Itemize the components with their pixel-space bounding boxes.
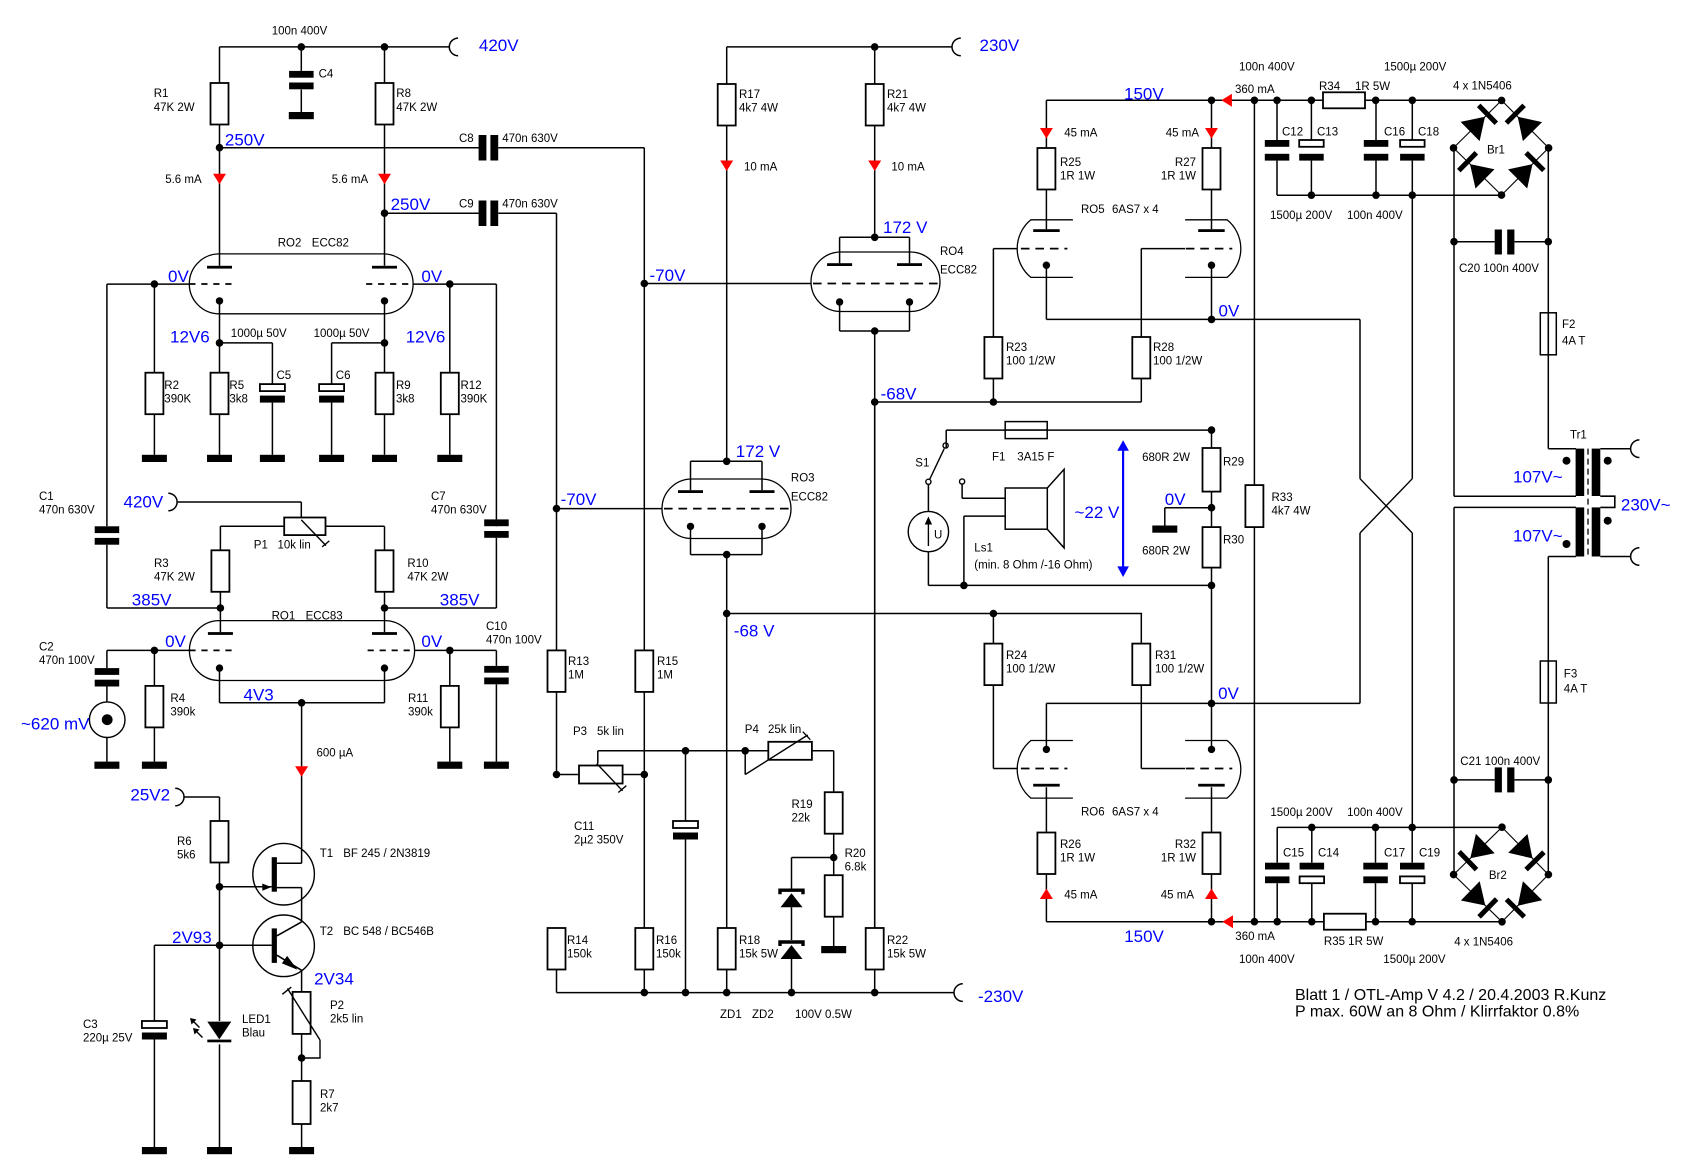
svg-text:0V: 0V [421, 632, 442, 651]
capacitor C21 100n [1454, 779, 1495, 781]
capacitor C11 2u2 [685, 751, 687, 821]
anode plate RO1 right [372, 632, 397, 635]
svg-text:0V: 0V [1219, 302, 1240, 321]
svg-text:25k lin: 25k lin [768, 724, 801, 736]
svg-text:~22 V: ~22 V [1075, 503, 1121, 522]
svg-text:360 mA: 360 mA [1235, 931, 1275, 943]
svg-text:R29: R29 [1223, 457, 1244, 469]
svg-text:C2: C2 [39, 642, 54, 654]
current arrow 600uA [295, 766, 308, 777]
bridge Br2 [1454, 827, 1502, 874]
node -70V RO3 [553, 505, 561, 513]
svg-text:2V93: 2V93 [172, 928, 212, 947]
wire R2 gnd [153, 414, 155, 455]
node F1 output [1208, 426, 1216, 434]
anode plate RO4 right [897, 263, 922, 266]
wire cathodes RO1 join 4V3 [219, 668, 221, 703]
svg-text:RO4: RO4 [940, 246, 964, 258]
svg-text:R6: R6 [177, 836, 192, 848]
cathode RO5 left [1043, 262, 1050, 269]
wire 150V rail top [1045, 100, 1047, 148]
wire grid RO5 left via R23 [993, 248, 1017, 250]
svg-text:470n 100V: 470n 100V [486, 635, 542, 647]
cathode RO6 left [1043, 746, 1050, 753]
node speaker return [960, 582, 968, 590]
ground C5 [260, 455, 285, 462]
svg-text:C20 100n 400V: C20 100n 400V [1459, 263, 1539, 275]
resistor R27 1R 1W [1211, 100, 1213, 148]
wire 0V right to C10 [450, 649, 497, 651]
svg-text:R10: R10 [407, 558, 428, 570]
wire cathodes RO4 join [839, 302, 841, 331]
node C18 rail [1409, 97, 1417, 105]
potentiometer P4 25k lin [768, 742, 812, 760]
svg-text:P3: P3 [573, 726, 587, 738]
resistor R7 [293, 1081, 311, 1124]
ground R2 [142, 455, 167, 462]
node C15 rail [1273, 918, 1281, 926]
svg-text:390K: 390K [461, 394, 488, 406]
svg-text:ZD1: ZD1 [720, 1009, 742, 1021]
svg-text:5.6 mA: 5.6 mA [165, 174, 202, 186]
svg-text:(min. 8 Ohm /-16 Ohm): (min. 8 Ohm /-16 Ohm) [974, 560, 1092, 572]
svg-text:0V: 0V [421, 267, 442, 286]
svg-text:T2: T2 [320, 926, 333, 938]
wire R14 to rail [556, 970, 558, 993]
node 250V left [216, 144, 224, 152]
svg-text:680R 2W: 680R 2W [1142, 452, 1190, 464]
wire to C6 [332, 342, 385, 344]
anode bracket RO3 [691, 460, 763, 462]
node 12V6 left [216, 339, 224, 347]
wire C5 gnd [271, 403, 273, 455]
node 250V right [381, 209, 389, 217]
svg-text:5.6 mA: 5.6 mA [332, 174, 369, 186]
wire P1 left to R3 [220, 525, 284, 527]
svg-text:RO5: RO5 [1081, 204, 1105, 216]
svg-text:45 mA: 45 mA [1064, 890, 1098, 902]
wire R12 top [449, 284, 451, 373]
zener ZD2 [780, 942, 803, 946]
svg-text:10 mA: 10 mA [744, 162, 778, 174]
wire P3 left lead [557, 774, 580, 776]
svg-text:ECC82: ECC82 [940, 265, 977, 277]
wire R22 line down [874, 402, 876, 928]
wire C21 right to Br2 [1547, 780, 1549, 875]
node C17 bus [1372, 824, 1380, 832]
svg-text:470n 630V: 470n 630V [502, 199, 558, 211]
speaker contact [960, 479, 965, 484]
svg-text:25V2: 25V2 [130, 786, 170, 805]
wire C11 to -230V rail [685, 840, 687, 993]
wire to C5 [220, 342, 273, 344]
node C19 bus [1408, 824, 1416, 832]
cathode RO4 right [906, 298, 913, 305]
svg-text:15k 5W: 15k 5W [887, 949, 926, 961]
node return R30 [1208, 582, 1216, 590]
wire cathode RO5 right to 0V [1211, 265, 1213, 319]
fuse F2 4A T [1540, 313, 1556, 355]
node 172V RO3 [723, 458, 731, 466]
svg-text:420V: 420V [479, 36, 519, 55]
svg-text:S1: S1 [915, 458, 929, 470]
terminal 230V~ top [1631, 440, 1640, 458]
svg-text:ZD2: ZD2 [752, 1009, 774, 1021]
ground LED [207, 1147, 232, 1154]
resistor R2 [145, 373, 163, 415]
svg-text:47K 2W: 47K 2W [407, 572, 448, 584]
svg-text:47K 2W: 47K 2W [154, 572, 195, 584]
current arrow 45mA R27 [1205, 128, 1218, 139]
wire Br1 right down [1547, 148, 1549, 242]
potentiometer P3 5k lin [579, 766, 623, 784]
svg-text:C4: C4 [319, 69, 334, 81]
wire R9 gnd [384, 414, 386, 455]
anode plate RO4 left [827, 263, 852, 266]
node junction R8 [381, 43, 389, 51]
svg-text:R14: R14 [567, 935, 589, 947]
wire F1 node to R29 [1211, 430, 1213, 448]
node C11 top [682, 747, 690, 755]
node cathode RO3 [723, 551, 731, 559]
svg-text:1R 5W: 1R 5W [1355, 81, 1390, 93]
wire F1 to output node [1047, 429, 1211, 431]
phase dot pri bottom [1604, 517, 1612, 525]
svg-text:2k7: 2k7 [320, 1103, 339, 1115]
svg-text:P4: P4 [745, 724, 760, 736]
wire F2 to transformer [1547, 355, 1549, 449]
wire grid RO3 to -70V [557, 508, 663, 510]
ground C6 [319, 455, 344, 462]
svg-text:680R 2W: 680R 2W [1142, 546, 1190, 558]
terminal 230V [952, 38, 961, 56]
grid RO2 left [189, 283, 236, 285]
node -70V RO4 [641, 280, 649, 288]
transistor T2 BC548 [253, 915, 315, 977]
wire 25V2 to R6 [184, 796, 220, 798]
node C18 bus [1409, 191, 1417, 199]
svg-text:C8: C8 [459, 133, 474, 145]
resistor R23 100 [984, 337, 1002, 379]
svg-text:470n 100V: 470n 100V [39, 655, 95, 667]
wire R18 line down [726, 614, 728, 929]
ground C10 [484, 762, 509, 769]
node P2 wiper [298, 1054, 306, 1062]
svg-text:-70V: -70V [650, 266, 687, 285]
svg-text:385V: 385V [132, 591, 172, 610]
current arrow 10mA right [868, 161, 881, 172]
ground C3 [142, 1147, 167, 1154]
svg-text:C21 100n 400V: C21 100n 400V [1460, 756, 1540, 768]
resistor R12 [441, 373, 459, 415]
node C16 bus [1372, 191, 1380, 199]
cathode RO1 right [381, 664, 388, 671]
svg-text:6AS7 x 4: 6AS7 x 4 [1112, 807, 1159, 819]
resistor R26 1R 1W [1037, 833, 1055, 875]
svg-text:150k: 150k [567, 949, 592, 961]
svg-text:T1: T1 [320, 848, 333, 860]
svg-text:470n 630V: 470n 630V [502, 133, 558, 145]
wire 0V to cathode RO6 right [1211, 703, 1213, 749]
svg-text:12V6: 12V6 [170, 327, 210, 346]
anode plate RO6 left [1033, 784, 1060, 787]
svg-text:172 V: 172 V [736, 442, 781, 461]
wire C6 gnd [331, 403, 333, 455]
svg-text:1R 1W: 1R 1W [1060, 853, 1095, 865]
node P3 left [553, 771, 561, 779]
svg-text:Br1: Br1 [1487, 145, 1505, 157]
wire 0V right to C7 line [450, 283, 497, 285]
capacitor C16 100n [1375, 100, 1377, 140]
svg-text:250V: 250V [225, 131, 265, 150]
resistor R14 150k [548, 928, 566, 970]
node C21 left [1450, 776, 1458, 784]
svg-text:RO1: RO1 [272, 611, 296, 623]
svg-text:R21: R21 [887, 89, 908, 101]
svg-text:100 1/2W: 100 1/2W [1006, 356, 1055, 368]
grid RO6 left [1021, 768, 1068, 770]
wire 0V rail RO6 [1046, 702, 1360, 704]
svg-text:C1: C1 [39, 491, 54, 503]
resistor R34 1R 5W [1323, 92, 1365, 108]
wire 0V to C2 [107, 649, 154, 651]
capacitor C20 100n [1454, 241, 1495, 243]
wire R19 to R20 [833, 834, 835, 876]
svg-text:470n 630V: 470n 630V [39, 505, 95, 517]
svg-text:R15: R15 [657, 656, 678, 668]
wire anode RO2 left [219, 148, 221, 266]
svg-text:-68 V: -68 V [734, 622, 775, 641]
svg-text:6AS7 x 4: 6AS7 x 4 [1112, 204, 1159, 216]
svg-text:10k lin: 10k lin [278, 540, 311, 552]
current arrow 5.6mA left [213, 174, 226, 185]
node 2V93 [216, 942, 224, 950]
wire R13 to P3 [556, 692, 558, 775]
resistor R11 [449, 650, 451, 686]
svg-text:P1: P1 [254, 540, 268, 552]
capacitor C12 1500u [1276, 100, 1278, 140]
svg-text:15k 5W: 15k 5W [739, 949, 778, 961]
node R19/R20/ZD1 [830, 854, 838, 862]
wire R31 to grid RO6 right [1140, 685, 1142, 768]
resistor R16 150k [643, 775, 645, 929]
svg-text:C10: C10 [486, 621, 507, 633]
tube RO6 6AS7 right half [1185, 741, 1241, 799]
node cathode RO4 [871, 327, 879, 335]
input connector ~620mV [89, 702, 125, 738]
wire 2V93 to C3 [153, 945, 155, 1021]
svg-text:R8: R8 [396, 88, 411, 100]
node C13 bus [1308, 191, 1316, 199]
wire 0V to C1 [107, 283, 154, 285]
svg-text:5k6: 5k6 [177, 850, 196, 862]
wire C20 right to F2 [1547, 242, 1549, 313]
svg-text:45 mA: 45 mA [1166, 128, 1200, 140]
svg-text:R34: R34 [1319, 81, 1341, 93]
wire R27 to anode [1211, 190, 1213, 230]
wire S1 to F1 [945, 430, 947, 448]
wire grid RO5 right via R28 [1141, 248, 1185, 250]
anode plate RO3 right [750, 490, 775, 493]
wire R1 top [219, 47, 221, 83]
svg-text:P max. 60W an 8 Ohm / Klirrfak: P max. 60W an 8 Ohm / Klirrfaktor 0.8% [1295, 1004, 1579, 1021]
resistor R32 1R 1W [1203, 833, 1221, 875]
node 0V tap [1208, 504, 1216, 512]
wire R3 to 385V [219, 592, 221, 632]
svg-text:C5: C5 [277, 370, 292, 382]
svg-text:R3: R3 [154, 558, 169, 570]
resistor R9 [384, 343, 386, 373]
tube RO2 ECC82 [189, 254, 413, 314]
cathode RO4 left [836, 298, 843, 305]
wire grid right [415, 649, 450, 651]
capacitor C17 100n [1375, 827, 1377, 862]
node C19 rail [1408, 918, 1416, 926]
wire secondary bottom to F3 [1548, 556, 1576, 558]
ground R9 [372, 455, 397, 462]
svg-text:220µ 25V: 220µ 25V [83, 1033, 133, 1045]
wire ZD1 top link [792, 857, 834, 859]
svg-text:0V: 0V [1218, 684, 1239, 703]
wire cathode RO4 to -68V [874, 331, 876, 402]
meter U [908, 511, 948, 551]
svg-text:4 x 1N5406: 4 x 1N5406 [1454, 937, 1513, 949]
svg-text:385V: 385V [440, 591, 480, 610]
node 0V RO1 right [446, 647, 454, 655]
svg-text:R4: R4 [170, 693, 185, 705]
capacitor C2 [106, 650, 108, 668]
cathode RO3 right [758, 523, 765, 530]
svg-text:Ls1: Ls1 [974, 543, 993, 555]
wire C21 left to Br2 [1453, 780, 1455, 875]
wire R6 to gate node [219, 863, 221, 887]
svg-text:100n 400V: 100n 400V [272, 25, 328, 37]
fuse F3 4A T [1540, 661, 1556, 703]
svg-text:172 V: 172 V [883, 218, 928, 237]
wire LED gnd [219, 1044, 221, 1147]
wire -68V rail RO4 [875, 401, 1142, 403]
resistor R18 15k 5W [718, 928, 736, 970]
svg-text:22k: 22k [792, 813, 811, 825]
node gate T1 [216, 883, 224, 891]
svg-text:4A T: 4A T [1562, 336, 1585, 348]
wire R20 gnd [833, 917, 835, 946]
wire -70V line down to P3 [643, 284, 645, 651]
svg-text:C13: C13 [1317, 127, 1338, 139]
wire F3 to C21 [1547, 703, 1549, 780]
terminal 230V~ bottom [1631, 548, 1640, 566]
svg-text:-230V: -230V [978, 987, 1024, 1006]
capacitor C10 [495, 650, 497, 666]
svg-text:F3: F3 [1564, 669, 1577, 681]
ground R11 [437, 762, 462, 769]
svg-text:360 mA: 360 mA [1235, 84, 1275, 96]
node 0V RO2 right [446, 280, 454, 288]
svg-text:45 mA: 45 mA [1161, 890, 1195, 902]
wire speaker bottom lead [964, 515, 1005, 517]
svg-text:100n 400V: 100n 400V [1239, 62, 1295, 74]
svg-text:ECC82: ECC82 [312, 238, 349, 250]
resistor R19 22k [825, 792, 843, 834]
svg-text:R9: R9 [396, 380, 411, 392]
wire grid left 0V [154, 283, 189, 285]
wire Br1 left down [1453, 148, 1455, 242]
anode plate RO6 right [1198, 784, 1225, 787]
svg-text:1M: 1M [568, 670, 584, 682]
wire C8 to -70V line [498, 147, 644, 149]
fuse F1 3A15F [1005, 422, 1047, 439]
current arrow 45mA R25 [1040, 128, 1053, 139]
transistor T1 BF245 [253, 843, 315, 905]
svg-text:-68V: -68V [881, 385, 918, 404]
svg-text:390k: 390k [170, 707, 195, 719]
svg-text:C19: C19 [1419, 848, 1440, 860]
svg-text:R18: R18 [739, 935, 760, 947]
wire R15 to P3 right [643, 692, 645, 775]
wire -68V rail RO3 [727, 613, 1142, 615]
svg-text:ECC82: ECC82 [791, 492, 828, 504]
svg-text:R28: R28 [1153, 342, 1174, 354]
svg-text:F1: F1 [992, 452, 1005, 464]
node R35 right [1372, 918, 1380, 926]
svg-text:Br2: Br2 [1489, 870, 1507, 882]
terminal -230V [954, 984, 963, 1002]
node R32 rail [1208, 918, 1216, 926]
node R33 rail bottom [1251, 918, 1259, 926]
wire bottom cap bus [1277, 826, 1502, 828]
wire primary top terminal [1600, 448, 1630, 450]
svg-text:107V~: 107V~ [1513, 527, 1563, 546]
svg-text:230V: 230V [980, 36, 1020, 55]
wire S1 to meter [927, 484, 929, 511]
svg-text:R7: R7 [320, 1089, 335, 1101]
resistor R22 15k 5W [874, 402, 876, 928]
svg-text:R31: R31 [1155, 650, 1176, 662]
node 4V3 [298, 699, 306, 707]
svg-text:C16: C16 [1384, 127, 1405, 139]
svg-text:C15: C15 [1283, 848, 1304, 860]
wire P3 wiper to rail [597, 751, 599, 764]
svg-text:0V: 0V [1165, 490, 1186, 509]
wire crossover [1411, 195, 1413, 479]
current arrow 5.6mA right [378, 174, 391, 185]
capacitor C3 [142, 1021, 167, 1028]
wire meter to speaker return [927, 552, 929, 586]
anode plate RO2 left [207, 266, 232, 269]
tube RO3 ECC82 [662, 479, 791, 539]
tube RO4 ECC82 [811, 252, 940, 312]
svg-text:Blau: Blau [242, 1028, 265, 1040]
svg-text:C11: C11 [574, 821, 594, 833]
resistor R20 6.8k [825, 875, 843, 917]
node 385V right [381, 604, 389, 612]
svg-text:4k7 4W: 4k7 4W [1272, 506, 1311, 518]
svg-text:RO6: RO6 [1081, 807, 1105, 819]
svg-text:1R 1W: 1R 1W [1060, 171, 1095, 183]
resistor R3 [211, 550, 229, 592]
svg-text:1500µ 200V: 1500µ 200V [1384, 62, 1447, 74]
potentiometer P2 2k5 lin [293, 992, 311, 1034]
resistor R31 100 [1140, 614, 1142, 644]
tube RO5 6AS7 left half [1017, 220, 1073, 278]
svg-text:2V34: 2V34 [314, 970, 354, 989]
wire R2 top [153, 284, 155, 373]
node C14 rail [1308, 918, 1316, 926]
svg-text:1R 1W: 1R 1W [1161, 171, 1196, 183]
svg-text:RO2: RO2 [278, 238, 302, 250]
wire R12 gnd [449, 414, 451, 455]
wire cathode RO2 right down [384, 301, 386, 343]
